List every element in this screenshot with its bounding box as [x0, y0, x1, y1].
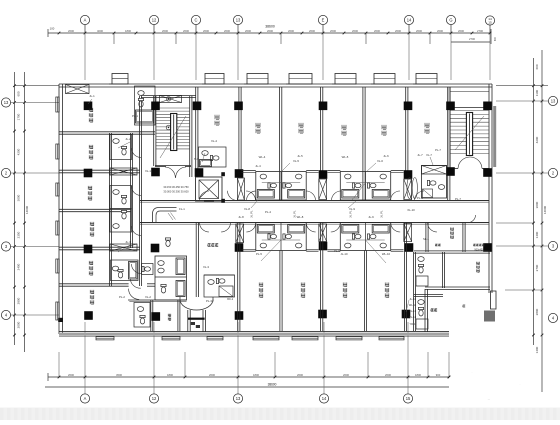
bottom gray strip	[0, 408, 560, 421]
guest room labels bottom band	[259, 283, 389, 298]
duct shafts at corridor columns	[236, 178, 412, 243]
svg-text:2600: 2600	[385, 373, 391, 377]
leader lines	[88, 99, 376, 252]
svg-text:XL-7: XL-7	[426, 153, 432, 157]
svg-text:XL-3: XL-3	[203, 265, 209, 269]
service zone walls	[128, 300, 187, 331]
svg-text:JL-10: JL-10	[341, 252, 348, 256]
svg-text:2600: 2600	[343, 373, 349, 377]
svg-text:4000: 4000	[97, 29, 103, 33]
svg-text:2600: 2600	[68, 373, 74, 377]
svg-text:15: 15	[406, 396, 411, 401]
svg-text:2600: 2600	[416, 29, 422, 33]
stair treads west	[156, 108, 190, 149]
svg-text:JL-9: JL-9	[368, 215, 374, 219]
bathroom pair bottom at partition E	[256, 223, 306, 251]
svg-text:1400: 1400	[535, 231, 539, 238]
stair treads east	[451, 111, 489, 154]
svg-text:1800: 1800	[167, 373, 173, 377]
svg-text:4500: 4500	[116, 373, 122, 377]
elevator lobby floor levels	[163, 185, 189, 194]
dense annotation cluster right lower	[406, 297, 417, 326]
top-left window x-box	[66, 85, 90, 94]
svg-text:2800: 2800	[535, 308, 539, 315]
svg-text:JL-7: JL-7	[417, 153, 423, 157]
top band alcove stub walls	[242, 171, 404, 173]
svg-text:WL-5: WL-5	[342, 155, 349, 159]
left axis lines and bubbles	[1, 86, 59, 320]
svg-text:XL-10: XL-10	[407, 208, 415, 212]
leader flags top-right	[426, 148, 441, 165]
svg-text:PL-7: PL-7	[435, 148, 441, 152]
bottom-left room bathroom	[204, 275, 235, 297]
bathroom pair bottom at partition F	[340, 223, 390, 251]
svg-text:3000: 3000	[535, 201, 539, 208]
bottom guest room partitions	[196, 223, 406, 332]
stair rail east	[466, 113, 472, 156]
svg-text:E: E	[322, 18, 325, 23]
svg-text:FL-1: FL-1	[179, 207, 185, 211]
bathroom pair top at partition E	[256, 172, 306, 201]
svg-text:PL-9: PL-9	[417, 196, 423, 200]
work room bathroom	[416, 257, 428, 286]
outer wall left	[59, 84, 62, 334]
svg-text:JL-1: JL-1	[89, 94, 95, 98]
svg-text:2600: 2600	[267, 29, 273, 33]
svg-text:XL-4: XL-4	[211, 139, 217, 143]
stair duct x-box	[160, 96, 182, 103]
corridor door arcs north side	[200, 191, 425, 201]
right wall window bay	[491, 291, 497, 309]
svg-text:2600: 2600	[162, 29, 168, 33]
svg-text:600: 600	[17, 91, 21, 96]
right wall shading band	[493, 106, 496, 167]
svg-text:T-4: T-4	[194, 157, 198, 161]
bottom grid stubs, ticks and texts	[58, 322, 451, 394]
svg-text:XL-11: XL-11	[409, 309, 416, 313]
svg-text:13: 13	[551, 99, 556, 104]
left wing room labels	[88, 108, 94, 304]
corridor south wall	[140, 223, 489, 225]
svg-text:PL-3: PL-3	[206, 299, 212, 303]
stair exit double door east	[450, 157, 489, 169]
entry arch to big room	[180, 297, 213, 310]
bathroom pair top at partition F	[340, 172, 390, 201]
right axis bubbles	[496, 96, 558, 322]
corridor rotated annotations	[250, 210, 384, 218]
svg-text:WL-8: WL-8	[297, 215, 304, 219]
outer wall right of stairwell	[489, 84, 492, 293]
svg-text:2600: 2600	[203, 29, 209, 33]
svg-text:2700: 2700	[469, 37, 475, 41]
svg-text:YD-1: YD-1	[410, 322, 416, 326]
water meter label	[435, 244, 465, 307]
svg-text:JL-2: JL-2	[125, 137, 131, 141]
entry vestibule walls	[188, 310, 206, 332]
svg-text:2800: 2800	[17, 297, 21, 304]
columns row on axis 4 (bottom)	[84, 310, 410, 321]
svg-text:2600: 2600	[458, 29, 464, 33]
gray column bottom right	[484, 311, 495, 322]
svg-text:XL-8: XL-8	[244, 207, 250, 211]
svg-text:600: 600	[494, 36, 497, 41]
stair arrow west	[160, 116, 186, 158]
svg-text:14: 14	[407, 18, 412, 23]
stair lobby double door	[155, 167, 191, 178]
left wall window sills	[56, 97, 59, 320]
svg-text:XL-9: XL-9	[349, 207, 355, 211]
bathroom top-left room	[135, 86, 156, 125]
svg-text:JL-3: JL-3	[125, 240, 131, 244]
svg-text:15: 15	[488, 21, 492, 25]
svg-text:XD-1: XD-1	[227, 297, 234, 301]
svg-text:WL-11: WL-11	[409, 303, 417, 307]
stairwell east walls	[448, 87, 489, 168]
bathroom left row2	[110, 135, 132, 160]
svg-text:2000: 2000	[17, 321, 21, 328]
svg-text:XL PL: XL PL	[349, 210, 353, 218]
wc cell beside row5 bath	[142, 264, 154, 275]
top grid bubbles	[80, 15, 494, 25]
bottom band alcove stub walls	[242, 250, 404, 252]
svg-text:2600: 2600	[297, 373, 303, 377]
svg-text:XL PL: XL PL	[250, 210, 254, 218]
columns row on axis 2 (corridor north)	[84, 167, 492, 179]
left dimension lines	[11, 72, 28, 352]
stair arrow east	[455, 116, 484, 150]
svg-text:XL-2: XL-2	[145, 295, 151, 299]
stairwell west walls	[141, 95, 196, 177]
svg-text:WL-10: WL-10	[382, 252, 391, 256]
entry threshold bar	[188, 318, 205, 320]
svg-text:1100: 1100	[535, 89, 539, 96]
svg-text:2350: 2350	[17, 231, 21, 238]
svg-text:JL-5: JL-5	[297, 154, 303, 158]
left wing duct x-boxes	[110, 168, 137, 251]
svg-text:PL-5: PL-5	[256, 252, 262, 256]
svg-text:A: A	[84, 396, 87, 401]
top dimension texts	[50, 25, 497, 42]
svg-text:PL-1: PL-1	[132, 114, 138, 118]
columns row on axis 3 (corridor south)	[84, 242, 492, 254]
bathroom left row4	[110, 209, 132, 232]
svg-text:2600: 2600	[374, 29, 380, 33]
faint watermark marks	[472, 370, 521, 401]
leader annotations	[89, 94, 461, 303]
outer wall top	[59, 84, 492, 87]
svg-text:JL-8: JL-8	[238, 215, 244, 219]
svg-text:WL-4: WL-4	[259, 155, 266, 159]
svg-text:1400: 1400	[535, 346, 539, 353]
right dimension texts	[535, 64, 547, 353]
bottom grid bubbles	[80, 394, 412, 403]
svg-text:600: 600	[535, 64, 539, 69]
bathroom top-right corner room	[422, 166, 447, 199]
svg-text:30.150 30.450 30.750: 30.150 30.450 30.750	[163, 185, 189, 189]
svg-text:·: ·	[472, 370, 473, 374]
svg-text:PL-7: PL-7	[455, 197, 461, 201]
columns row on axis 13 (top)	[84, 102, 492, 111]
svg-text:PL-6: PL-6	[334, 249, 340, 253]
svg-text:1700: 1700	[17, 113, 21, 120]
corner jamb bottom-left	[58, 318, 63, 322]
svg-text:C: C	[195, 18, 198, 23]
svg-text:12: 12	[152, 18, 157, 23]
service bath cluster	[155, 238, 187, 300]
door arc into big room	[129, 289, 140, 300]
svg-text:2600: 2600	[245, 29, 251, 33]
svg-text:1800: 1800	[125, 29, 131, 33]
left wing corridor door arcs	[132, 148, 142, 274]
svg-text:12: 12	[152, 396, 157, 401]
svg-text:JL-11: JL-11	[409, 297, 416, 301]
svg-text:2600: 2600	[330, 29, 336, 33]
corridor door arcs south side	[200, 223, 438, 233]
work room walls	[413, 223, 490, 332]
bottom wall window sills	[96, 337, 404, 340]
guest room labels top band	[215, 115, 429, 135]
top grid verticals into plan	[85, 33, 490, 80]
floor drain marks west stair	[166, 97, 171, 130]
svg-text:4200: 4200	[17, 148, 21, 155]
bathroom left row3	[110, 186, 132, 209]
svg-text:30.000 30.300 30.600: 30.000 30.300 30.600	[163, 190, 189, 194]
svg-text:900: 900	[436, 373, 441, 377]
left dimension texts	[17, 91, 30, 328]
svg-text:XL-1: XL-1	[145, 169, 151, 173]
svg-text:14000: 14000	[25, 205, 29, 214]
diagonal leaders into rooms	[261, 182, 386, 263]
svg-text:14: 14	[322, 396, 327, 401]
right dimension lines	[496, 50, 548, 392]
bathroom left row5	[111, 260, 139, 281]
elevator shaft	[196, 172, 225, 203]
svg-text:PL-4: PL-4	[265, 210, 271, 214]
svg-text:2600: 2600	[437, 29, 443, 33]
svg-text:900x450: 900x450	[474, 249, 484, 252]
svg-text:14000: 14000	[543, 205, 547, 214]
svg-text:2700: 2700	[477, 29, 483, 33]
svg-text:XL-5: XL-5	[293, 159, 299, 163]
svg-text:1800: 1800	[253, 373, 259, 377]
svg-text:PL-11: PL-11	[409, 315, 416, 319]
svg-text:2600: 2600	[68, 29, 74, 33]
facade bay windows top	[109, 74, 437, 85]
bathroom for room C (left of elevator)	[199, 147, 227, 167]
bottom dimension line	[45, 373, 449, 387]
svg-text:2600: 2600	[352, 29, 358, 33]
svg-text:13: 13	[236, 396, 241, 401]
top grid axis stubs and ticks	[58, 25, 492, 45]
svg-text:2700: 2700	[535, 264, 539, 271]
svg-text:JL-6: JL-6	[383, 154, 389, 158]
svg-text:·: ·	[520, 382, 521, 386]
svg-text:13: 13	[236, 18, 241, 23]
entry floor marks	[191, 322, 200, 328]
svg-text:PL-2: PL-2	[119, 295, 125, 299]
svg-text:2600: 2600	[183, 29, 189, 33]
svg-text:2600: 2600	[209, 373, 215, 377]
outer wall bottom	[59, 332, 449, 337]
misc room labels right	[208, 215, 485, 311]
reception desk counter	[153, 208, 177, 223]
left wing room walls	[59, 96, 155, 286]
svg-text:4200: 4200	[535, 136, 539, 143]
svg-text:2600: 2600	[224, 29, 230, 33]
svg-text:G: G	[449, 18, 452, 23]
lower right fixtures	[416, 300, 428, 329]
door arc below row5 bath	[130, 279, 141, 289]
svg-text:38600: 38600	[265, 25, 275, 29]
door swing ellipses at partition	[407, 178, 418, 199]
svg-text:100: 100	[50, 27, 55, 31]
svg-text:13: 13	[4, 100, 9, 105]
svg-text:XL-6: XL-6	[377, 159, 383, 163]
svg-text:2600: 2600	[309, 29, 315, 33]
top guest room partitions	[196, 87, 450, 200]
svg-text:1800: 1800	[415, 373, 421, 377]
svg-text:JL-4: JL-4	[255, 164, 261, 168]
svg-text:XL PL: XL PL	[380, 210, 384, 218]
svg-text:SL-1: SL-1	[423, 237, 429, 241]
svg-text:2600: 2600	[395, 29, 401, 33]
wc label	[168, 314, 171, 321]
corridor north wall	[140, 201, 489, 203]
svg-text:2600: 2600	[288, 29, 294, 33]
bottom-right step walls	[425, 287, 490, 336]
door arc elevator lobby	[228, 191, 238, 201]
svg-text:38600: 38600	[268, 383, 277, 387]
svg-text:3000: 3000	[17, 194, 21, 201]
svg-text:...: ...	[488, 397, 491, 401]
top dimension line	[48, 29, 491, 44]
svg-text:A: A	[84, 18, 87, 23]
svg-text:2400: 2400	[17, 263, 21, 270]
lower service bath	[134, 303, 150, 328]
stair rail west	[171, 114, 177, 151]
